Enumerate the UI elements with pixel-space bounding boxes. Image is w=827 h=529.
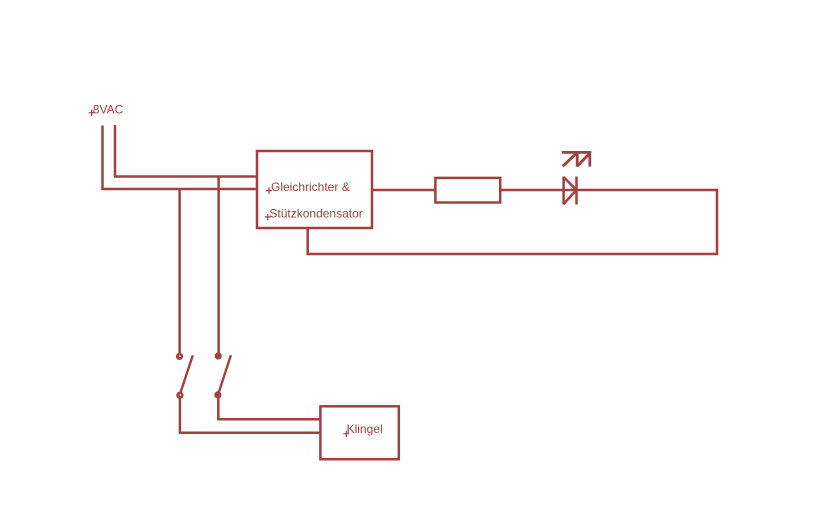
switch S2 bottom terminal dot [214, 391, 221, 398]
LED D1 triangle lower diagonal [564, 190, 577, 204]
svg-text:Klingel: Klingel [347, 422, 383, 436]
wire S1 to Klingel box [179, 431, 321, 434]
switch S1 lever [181, 355, 193, 392]
switch S1 top dot pinhole [179, 355, 181, 357]
LED arrow 2 vertical arm [588, 151, 591, 166]
wire drop to switch S2 [217, 177, 220, 353]
LED arrow 2 diagonal [577, 153, 590, 166]
wire right pole vertical from 8VAC [114, 125, 117, 177]
text anchor cross at Gleichrichter [266, 187, 272, 194]
LED arrow 1 vertical arm [576, 151, 579, 166]
box Klingel outline [320, 406, 398, 459]
LED D1 anode line [562, 177, 565, 205]
wire rectifier box to resistor [372, 189, 436, 192]
wire return up into rectifier box bottom [306, 228, 309, 255]
text anchor cross at Klingel [343, 431, 349, 438]
switch S2 top terminal dot [215, 352, 222, 359]
text anchor cross at 8VAC [89, 110, 95, 117]
box U1 Gleichrichter/Stuetzkondensator outline [257, 151, 372, 228]
resistor R1 body [435, 178, 500, 203]
wire S2 to Klingel box [217, 418, 321, 421]
text anchor cross at Stuetzkondensator [265, 214, 271, 221]
switch S2 lever [219, 355, 231, 392]
LED D1 triangle upper diagonal [564, 177, 577, 190]
wire resistor through LED to right corner [499, 189, 717, 192]
wire S1 bottom down [179, 395, 182, 433]
LED arrows top bar [562, 151, 591, 154]
svg-text:Stützkondensator: Stützkondensator [269, 206, 362, 220]
LED D1 cathode bar [575, 177, 578, 205]
wire drop to switch S1 [178, 189, 181, 353]
svg-text:8VAC: 8VAC [93, 103, 124, 117]
LED arrow 1 diagonal [563, 153, 577, 166]
wire bottom return horizontal [308, 253, 719, 256]
wire S2 bottom down [217, 395, 220, 419]
switch S1 bottom dot pinhole [179, 394, 181, 396]
wire right pole horizontal to rectifier box [114, 175, 258, 178]
wire left pole vertical from 8VAC [101, 126, 104, 190]
switch S1 top terminal dot [176, 353, 183, 360]
svg-text:Gleichrichter &: Gleichrichter & [271, 180, 350, 194]
wire right side vertical down [716, 189, 719, 254]
switch S1 bottom terminal dot [176, 392, 183, 399]
wire left pole horizontal to rectifier box [101, 188, 258, 191]
